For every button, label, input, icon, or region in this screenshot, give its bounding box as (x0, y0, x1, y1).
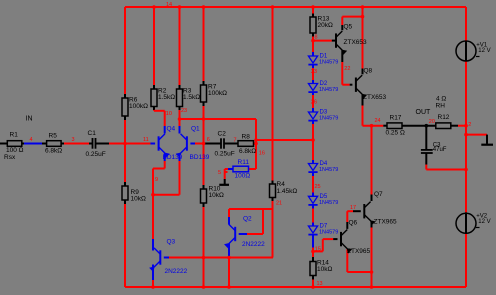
svg-text:BD139: BD139 (190, 154, 210, 161)
svg-text:23: 23 (181, 108, 187, 114)
svg-text:10kΩ: 10kΩ (317, 266, 332, 273)
svg-text:11: 11 (143, 137, 149, 143)
svg-text:1.5kΩ: 1.5kΩ (183, 94, 200, 101)
svg-text:Q5: Q5 (344, 24, 353, 31)
svg-text:1N4579: 1N4579 (319, 200, 338, 206)
svg-text:Q6: Q6 (349, 220, 358, 227)
svg-text:ZTX965: ZTX965 (347, 248, 371, 255)
svg-text:R12: R12 (438, 114, 450, 121)
svg-text:6.8kΩ: 6.8kΩ (239, 148, 256, 155)
svg-text:100kΩ: 100kΩ (129, 103, 148, 110)
svg-text:1.5kΩ: 1.5kΩ (158, 94, 175, 101)
svg-text:1N4579: 1N4579 (319, 230, 338, 236)
svg-text:R17: R17 (390, 115, 402, 122)
svg-text:Q8: Q8 (364, 68, 373, 75)
svg-text:Q1: Q1 (191, 126, 200, 133)
svg-text:2: 2 (468, 122, 471, 128)
svg-text:R1: R1 (10, 132, 19, 139)
svg-text:C1: C1 (88, 130, 97, 137)
svg-text:RH: RH (436, 103, 446, 110)
svg-text:1N4579: 1N4579 (319, 60, 338, 66)
svg-text:14: 14 (166, 2, 172, 8)
svg-text:8: 8 (315, 35, 318, 41)
svg-text:0.25 Ω: 0.25 Ω (386, 130, 405, 137)
svg-text:3: 3 (72, 137, 75, 143)
svg-text:4 Ω: 4 Ω (436, 96, 446, 103)
svg-text:2N2222: 2N2222 (165, 268, 188, 275)
svg-text:BD139: BD139 (163, 154, 183, 161)
svg-text:22: 22 (344, 66, 350, 72)
svg-text:10kΩ: 10kΩ (209, 192, 224, 199)
svg-text:4: 4 (30, 137, 33, 143)
svg-text:R8: R8 (242, 134, 251, 141)
svg-text:24: 24 (375, 118, 381, 124)
svg-text:13: 13 (317, 281, 323, 287)
svg-text:R11: R11 (238, 159, 250, 166)
svg-text:25: 25 (315, 184, 321, 190)
svg-text:ZTX653: ZTX653 (363, 94, 387, 101)
svg-text:20: 20 (429, 119, 435, 125)
svg-text:1N4579: 1N4579 (319, 116, 338, 122)
svg-text:C2: C2 (218, 131, 227, 138)
svg-text:6: 6 (207, 137, 210, 143)
svg-text:Rsx: Rsx (4, 154, 16, 161)
svg-text:17: 17 (350, 205, 356, 211)
svg-text:R4: R4 (277, 181, 286, 188)
svg-text:7: 7 (234, 138, 237, 144)
svg-text:10kΩ: 10kΩ (131, 196, 146, 203)
svg-text:Q3: Q3 (167, 239, 176, 246)
svg-text:9: 9 (155, 177, 158, 183)
svg-text:OUT: OUT (416, 109, 432, 116)
svg-text:0.25uF: 0.25uF (86, 151, 106, 158)
svg-text:16: 16 (259, 151, 265, 157)
svg-text:R5: R5 (49, 133, 58, 140)
svg-text:10: 10 (166, 111, 172, 117)
svg-text:2N2222: 2N2222 (242, 241, 265, 248)
svg-text:20kΩ: 20kΩ (318, 22, 333, 29)
svg-text:12 V: 12 V (478, 48, 490, 54)
svg-text:47uF: 47uF (433, 147, 447, 153)
svg-text:1.45kΩ: 1.45kΩ (277, 188, 298, 195)
svg-text:1N4579: 1N4579 (319, 87, 338, 93)
svg-text:100kΩ: 100kΩ (208, 90, 227, 97)
svg-text:1N4579: 1N4579 (319, 167, 338, 173)
svg-text:15: 15 (315, 247, 321, 253)
svg-text:IN: IN (26, 116, 33, 123)
svg-text:26: 26 (311, 100, 317, 106)
svg-text:21: 21 (276, 201, 282, 207)
svg-text:100 Ω: 100 Ω (6, 147, 24, 154)
svg-text:Q4: Q4 (167, 126, 176, 133)
svg-text:100Ω: 100Ω (235, 173, 251, 180)
svg-text:6.8kΩ: 6.8kΩ (45, 148, 62, 155)
svg-text:ZTX653: ZTX653 (344, 39, 368, 46)
svg-text:33: 33 (311, 69, 317, 75)
svg-text:5: 5 (218, 170, 221, 176)
svg-text:Q2: Q2 (243, 216, 252, 223)
svg-text:ZTX965: ZTX965 (374, 219, 398, 226)
svg-text:12 V: 12 V (478, 219, 490, 225)
svg-text:0.25uF: 0.25uF (215, 151, 235, 158)
svg-text:Q7: Q7 (374, 191, 383, 198)
